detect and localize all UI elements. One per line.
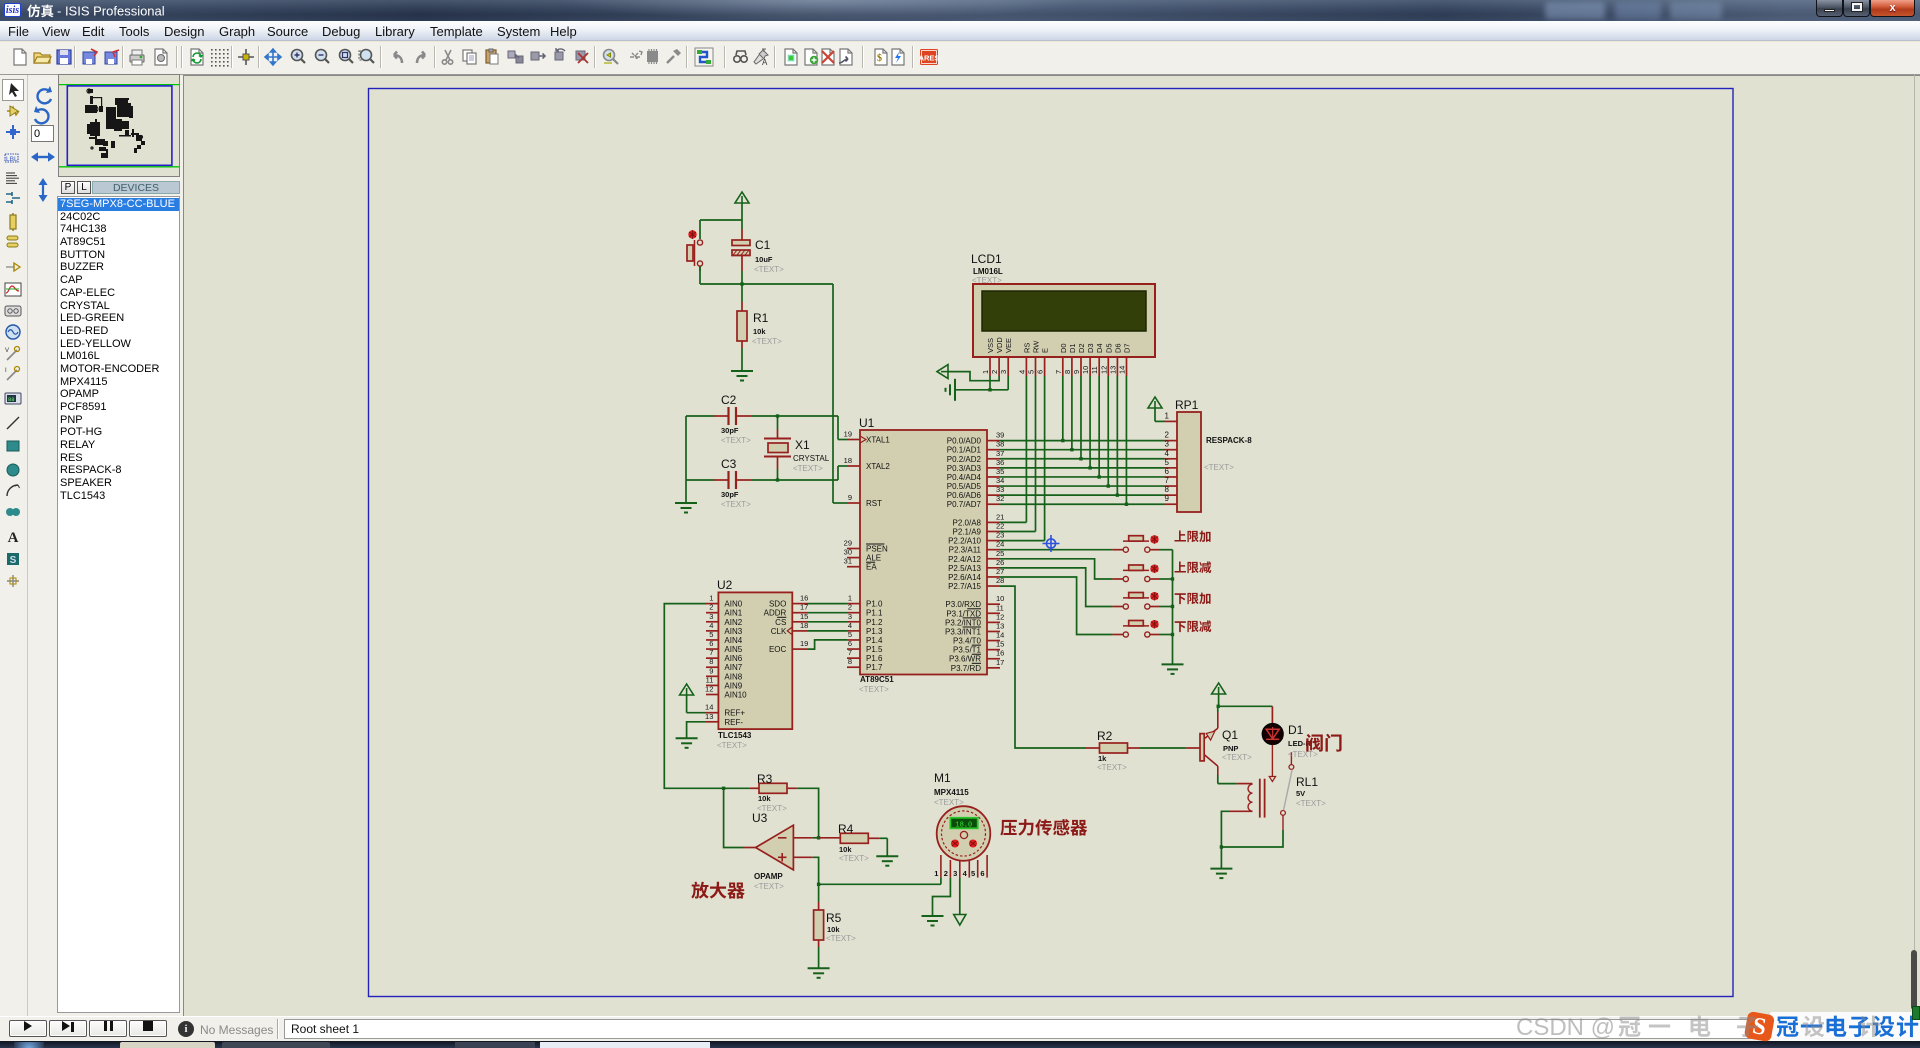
svg-text:<TEXT>: <TEXT> xyxy=(1222,753,1252,762)
svg-text:D0: D0 xyxy=(1059,343,1068,353)
resistor pack RP1 RESPACK-8 xyxy=(1165,411,1202,512)
svg-text:RW: RW xyxy=(1032,340,1041,353)
svg-text:<TEXT>: <TEXT> xyxy=(717,741,747,750)
svg-text:18.0: 18.0 xyxy=(955,822,972,830)
svg-text:P0.5/AD5: P0.5/AD5 xyxy=(947,482,982,491)
svg-text:8: 8 xyxy=(1165,485,1170,494)
power VCC RP1 xyxy=(1148,397,1162,421)
svg-text:CSDN @: CSDN @ xyxy=(1516,1014,1615,1041)
svg-text:14: 14 xyxy=(705,703,713,712)
svg-text:P1.4: P1.4 xyxy=(866,636,883,645)
svg-text:8: 8 xyxy=(848,657,852,666)
pushbutton key3 xyxy=(1112,592,1159,609)
svg-text:31: 31 xyxy=(844,557,852,566)
svg-text:12: 12 xyxy=(996,612,1004,621)
svg-text:REF-: REF- xyxy=(724,718,743,727)
svg-text:9: 9 xyxy=(709,666,713,675)
svg-text:12: 12 xyxy=(705,685,713,694)
svg-text:16: 16 xyxy=(996,649,1004,658)
svg-text:18: 18 xyxy=(844,456,852,465)
wire M1 pin2 to ground xyxy=(933,878,951,916)
svg-text:15: 15 xyxy=(996,640,1004,649)
pushbutton key4 xyxy=(1112,620,1159,637)
svg-text:13: 13 xyxy=(996,621,1004,630)
svg-text:A: A xyxy=(762,58,768,67)
terminal M1 pin3 output xyxy=(954,878,966,925)
transistor Q1 PNP xyxy=(1186,712,1218,775)
svg-text:<TEXT>: <TEXT> xyxy=(826,934,856,943)
svg-text:19: 19 xyxy=(800,639,808,648)
svg-text:3: 3 xyxy=(709,612,713,621)
svg-text:D3: D3 xyxy=(1086,343,1095,353)
svg-text:R5: R5 xyxy=(826,911,842,925)
svg-text:CLK: CLK xyxy=(771,627,787,636)
pressure sensor M1 MPX4115 xyxy=(934,806,990,878)
wire C2 to XTAL1 xyxy=(751,414,847,439)
svg-text:SDO: SDO xyxy=(769,600,786,609)
scrollbar nub xyxy=(1911,950,1917,1010)
ground M1 xyxy=(922,916,944,926)
svg-text:17: 17 xyxy=(996,658,1004,667)
wire amplifier output xyxy=(724,788,743,847)
label key4 xiaxianjian xyxy=(1175,620,1212,632)
svg-text:6: 6 xyxy=(980,869,984,878)
svg-text:10k: 10k xyxy=(839,845,852,854)
ground keys xyxy=(1162,664,1184,674)
wire R4 to ground xyxy=(879,838,887,856)
svg-text:17: 17 xyxy=(800,603,808,612)
svg-text:P3.5/T1: P3.5/T1 xyxy=(953,646,982,655)
svg-text:LCD1: LCD1 xyxy=(971,252,1002,266)
svg-text:R1: R1 xyxy=(753,311,769,325)
microcontroller U1 AT89C51 xyxy=(844,430,1005,675)
svg-text:RS: RS xyxy=(1022,343,1031,353)
svg-text:P3.0/RXD: P3.0/RXD xyxy=(945,600,981,609)
label Q1 xyxy=(1222,728,1252,762)
svg-text:TLC1543: TLC1543 xyxy=(718,731,752,740)
wire P2.3 to key1 xyxy=(1000,549,1112,551)
wire reset bottom rail xyxy=(700,282,833,285)
svg-text:P0.4/AD4: P0.4/AD4 xyxy=(947,473,982,482)
crystal X1 xyxy=(764,416,791,480)
svg-text:AIN5: AIN5 xyxy=(724,645,742,654)
svg-text:AIN10: AIN10 xyxy=(724,691,747,700)
svg-text:6: 6 xyxy=(1036,370,1045,374)
svg-text:P1.1: P1.1 xyxy=(866,609,883,618)
svg-text:PNP: PNP xyxy=(1223,744,1238,753)
label C3 xyxy=(721,457,751,509)
svg-text:P3.2/INT0: P3.2/INT0 xyxy=(945,618,982,627)
svg-text:4: 4 xyxy=(848,621,852,630)
svg-text:6: 6 xyxy=(1165,467,1170,476)
svg-text:RL1: RL1 xyxy=(1296,775,1318,789)
svg-text:9: 9 xyxy=(1165,494,1170,503)
svg-text:2: 2 xyxy=(944,869,948,878)
label key1 shangxianjia xyxy=(1175,531,1211,543)
svg-text:P3.7/RD: P3.7/RD xyxy=(951,664,981,673)
svg-text:U3: U3 xyxy=(752,811,768,825)
svg-text:<TEXT>: <TEXT> xyxy=(1204,463,1234,472)
svg-text:16: 16 xyxy=(800,594,808,603)
wire ADDR to P1.1 xyxy=(808,612,847,614)
svg-text:P3.3/INT1: P3.3/INT1 xyxy=(945,627,982,636)
wire P2.2 to E xyxy=(1000,540,1045,542)
svg-text:88: 88 xyxy=(8,396,15,403)
svg-text:R3: R3 xyxy=(757,772,773,786)
LED D1 xyxy=(1262,706,1283,781)
svg-text:I: I xyxy=(5,368,7,374)
svg-text:<TEXT>: <TEXT> xyxy=(1288,750,1318,759)
wire LCD RW column xyxy=(1035,376,1037,532)
svg-text:<TEXT>: <TEXT> xyxy=(754,882,784,891)
PL devices header xyxy=(61,181,75,194)
svg-text:D6: D6 xyxy=(1113,343,1122,353)
svg-text:P3.4/T0: P3.4/T0 xyxy=(953,637,982,646)
svg-text:3: 3 xyxy=(999,370,1008,374)
svg-text:7: 7 xyxy=(848,648,852,657)
svg-text:AIN4: AIN4 xyxy=(724,636,742,645)
svg-text:D2: D2 xyxy=(1077,343,1086,353)
svg-text:VSS: VSS xyxy=(986,338,995,353)
wire button left leg xyxy=(699,220,701,239)
svg-text:10uF: 10uF xyxy=(755,255,773,264)
svg-text:12: 12 xyxy=(1099,366,1108,374)
svg-text:<TEXT>: <TEXT> xyxy=(934,798,964,807)
wire R3 to inverting node xyxy=(797,788,819,838)
pushbutton reset xyxy=(687,230,703,271)
wire collector to coil xyxy=(1218,775,1237,784)
svg-text:U2: U2 xyxy=(717,578,733,592)
label TLC1543 xyxy=(717,731,752,750)
LCD LCD1 LM016L xyxy=(973,284,1155,376)
svg-text:D7: D7 xyxy=(1123,343,1132,353)
wires LCD D0-D7 columns xyxy=(1061,376,1128,506)
svg-text:<TEXT>: <TEXT> xyxy=(972,276,1002,285)
svg-text:P0.6/AD6: P0.6/AD6 xyxy=(947,491,982,500)
resistor R4 xyxy=(819,833,880,843)
svg-text:5: 5 xyxy=(1165,458,1170,467)
wire relay bottom xyxy=(1220,811,1283,848)
label AT89C51 xyxy=(859,675,894,694)
svg-text:3: 3 xyxy=(1165,440,1170,449)
svg-text:19: 19 xyxy=(844,430,852,439)
wire xtal left rail xyxy=(686,416,714,503)
svg-text:AIN9: AIN9 xyxy=(724,681,742,690)
svg-text:2: 2 xyxy=(1165,431,1170,440)
svg-text:1: 1 xyxy=(709,594,713,603)
wire P2.4 to key2 xyxy=(1000,559,1112,579)
label U3 xyxy=(752,811,784,891)
svg-text:<TEXT>: <TEXT> xyxy=(754,265,784,274)
wire P2.1 to RW xyxy=(1000,531,1036,533)
svg-text:P0.0/AD0: P0.0/AD0 xyxy=(947,437,982,446)
wire REF- to ground xyxy=(687,722,706,739)
label X1 xyxy=(793,438,830,473)
wire reset to RST xyxy=(833,284,847,503)
svg-text:P2.2/A10: P2.2/A10 xyxy=(948,537,981,546)
label LCD1 xyxy=(971,252,1003,285)
wire emitter rail xyxy=(1217,705,1273,712)
minimap xyxy=(58,74,180,177)
svg-text:3: 3 xyxy=(953,869,957,878)
svg-text:ALE: ALE xyxy=(866,554,881,563)
svg-text:P0.1/AD1: P0.1/AD1 xyxy=(947,446,982,455)
svg-text:P2.7/A15: P2.7/A15 xyxy=(948,582,981,591)
label RL1 xyxy=(1296,775,1326,808)
power VCC Q1 xyxy=(1212,683,1226,706)
wire VDD to power xyxy=(948,372,999,381)
svg-text:8: 8 xyxy=(709,657,713,666)
svg-text:30pF: 30pF xyxy=(721,426,739,435)
device list xyxy=(57,196,180,1013)
svg-text:OPAMP: OPAMP xyxy=(754,872,783,881)
svg-text:$: $ xyxy=(877,53,882,64)
svg-text:C2: C2 xyxy=(721,393,737,407)
label D1 xyxy=(1288,723,1318,759)
svg-text:P1.5: P1.5 xyxy=(866,645,883,654)
wire R2 to base xyxy=(1140,747,1186,749)
svg-text:10: 10 xyxy=(1081,366,1090,374)
label fangdaqi xyxy=(691,882,744,899)
resistor R5 xyxy=(814,884,824,968)
svg-text:5V: 5V xyxy=(1296,789,1305,798)
ground relay xyxy=(1210,869,1232,879)
svg-text:1: 1 xyxy=(1165,411,1170,420)
svg-text:5: 5 xyxy=(1027,370,1036,374)
ground R5 xyxy=(808,968,830,978)
sheet border xyxy=(369,89,1734,997)
ground R4 xyxy=(876,856,898,866)
label C2 xyxy=(721,393,751,445)
svg-text:4: 4 xyxy=(709,621,713,630)
label R4 xyxy=(838,822,869,863)
svg-text:11: 11 xyxy=(996,603,1004,612)
svg-text:5: 5 xyxy=(709,630,713,639)
resistor R3 xyxy=(750,783,797,793)
svg-text:P0.3/AD3: P0.3/AD3 xyxy=(947,464,982,473)
svg-text:7: 7 xyxy=(1165,476,1170,485)
svg-text:29: 29 xyxy=(844,539,852,548)
power VCC reset xyxy=(735,192,749,220)
svg-text:2: 2 xyxy=(709,603,713,612)
pushbutton key1 xyxy=(1112,535,1159,552)
svg-text:V: V xyxy=(5,348,9,354)
label R1 xyxy=(752,311,782,346)
wire P2.7 to R2 xyxy=(1000,586,1086,748)
ground reset xyxy=(731,371,753,381)
svg-text:1: 1 xyxy=(981,370,990,374)
svg-text:EOC: EOC xyxy=(769,645,787,654)
svg-text:EA: EA xyxy=(866,563,877,572)
svg-text:10k: 10k xyxy=(827,925,840,934)
svg-text:P3.1/TXD: P3.1/TXD xyxy=(946,609,981,618)
svg-text:RP1: RP1 xyxy=(1175,398,1199,412)
svg-text:P2.6/A14: P2.6/A14 xyxy=(948,573,981,582)
svg-text:<TEXT>: <TEXT> xyxy=(839,854,869,863)
svg-text:U1: U1 xyxy=(859,416,875,430)
svg-text:AIN3: AIN3 xyxy=(724,627,742,636)
svg-text:<TEXT>: <TEXT> xyxy=(721,500,751,509)
svg-text:R4: R4 xyxy=(838,822,854,836)
cursor crosshair xyxy=(1043,535,1060,552)
wire CLK to P1.3 xyxy=(808,630,847,632)
svg-text:VEE: VEE xyxy=(1004,338,1013,353)
wire P2.6 to key4 xyxy=(1000,577,1112,635)
wire noninverting node xyxy=(813,857,819,884)
svg-text:P0.7/AD7: P0.7/AD7 xyxy=(947,500,982,509)
svg-text:<TEXT>: <TEXT> xyxy=(859,685,889,694)
svg-text:15: 15 xyxy=(800,612,808,621)
label R2 xyxy=(1097,729,1127,772)
svg-text:ARES: ARES xyxy=(919,54,939,63)
rotate controls xyxy=(30,84,58,209)
wire SDO to P1.0 xyxy=(808,603,847,605)
svg-text:P0.2/AD2: P0.2/AD2 xyxy=(947,455,982,464)
svg-text:CRYSTAL: CRYSTAL xyxy=(793,454,830,463)
ADC U2 TLC1543 xyxy=(705,592,808,729)
taskbar window buttons peeking xyxy=(120,1042,215,1048)
svg-text:E: E xyxy=(1041,348,1050,353)
label RP1 xyxy=(1175,398,1252,472)
label yali chuanganqi xyxy=(1000,819,1087,836)
pushbutton key2 xyxy=(1112,565,1159,582)
ground LCD xyxy=(946,379,956,401)
resistor R1 xyxy=(737,284,747,370)
wire AIN0 to amplifier xyxy=(664,604,750,790)
svg-text:MPX4115: MPX4115 xyxy=(934,788,969,797)
svg-text:A: A xyxy=(8,530,19,546)
svg-text:ADDR: ADDR xyxy=(764,609,787,618)
svg-text:2: 2 xyxy=(848,603,852,612)
wire P2.0 to RS xyxy=(1000,521,1026,523)
svg-text:<TEXT>: <TEXT> xyxy=(721,436,751,445)
svg-text:<TEXT>: <TEXT> xyxy=(1296,799,1326,808)
wire C3 to XTAL2 xyxy=(751,466,847,482)
svg-text:13: 13 xyxy=(705,712,713,721)
svg-text:Q1: Q1 xyxy=(1222,728,1238,742)
relay RL1 xyxy=(1229,752,1294,830)
svg-text:AIN6: AIN6 xyxy=(724,654,742,663)
svg-text:XTAL2: XTAL2 xyxy=(866,462,890,471)
svg-text:- ISIS Professional: - ISIS Professional xyxy=(57,4,165,19)
label R5 xyxy=(826,911,856,943)
wire RP1 pin1 xyxy=(1155,420,1165,422)
wire CS to P1.2 xyxy=(808,621,847,623)
wire inverting node xyxy=(813,836,821,839)
svg-text:1: 1 xyxy=(934,869,938,878)
wire VSS VEE to ground xyxy=(955,376,1008,392)
svg-text:P2.5/A13: P2.5/A13 xyxy=(948,564,981,573)
wire reset top rail xyxy=(700,219,742,221)
svg-text:RESPACK-8: RESPACK-8 xyxy=(1206,436,1252,445)
svg-text:AIN2: AIN2 xyxy=(724,618,742,627)
label M1 xyxy=(934,771,969,807)
svg-text:30pF: 30pF xyxy=(721,490,739,499)
svg-text:2: 2 xyxy=(990,370,999,374)
svg-text:3: 3 xyxy=(848,612,852,621)
svg-text:X1: X1 xyxy=(795,438,810,452)
svg-text:18: 18 xyxy=(800,621,808,630)
wire LCD E column xyxy=(1044,376,1046,541)
svg-text:P1.7: P1.7 xyxy=(866,663,883,672)
svg-text:P2.0/A8: P2.0/A8 xyxy=(953,518,982,527)
svg-text:LBL: LBL xyxy=(6,156,18,163)
capacitor C3 xyxy=(714,471,751,489)
svg-text:P1.0: P1.0 xyxy=(866,600,883,609)
svg-text:CS: CS xyxy=(775,618,786,627)
svg-text:PSEN: PSEN xyxy=(866,545,888,554)
svg-text:P1.2: P1.2 xyxy=(866,618,883,627)
svg-text:R2: R2 xyxy=(1097,729,1113,743)
label key2 shangxianjian xyxy=(1175,561,1212,573)
svg-text:7: 7 xyxy=(709,648,713,657)
svg-text:4: 4 xyxy=(963,869,968,878)
svg-text:9: 9 xyxy=(848,493,852,502)
svg-text:21: 21 xyxy=(996,512,1004,521)
label R3 xyxy=(757,772,787,813)
svg-text:14: 14 xyxy=(996,631,1004,640)
resistor R2 xyxy=(1086,743,1140,753)
svg-text:<TEXT>: <TEXT> xyxy=(752,337,782,346)
svg-text:7: 7 xyxy=(1054,370,1063,374)
svg-text:AT89C51: AT89C51 xyxy=(860,675,894,684)
svg-text:S: S xyxy=(10,555,17,566)
label key3 xiaxianjia xyxy=(1175,593,1211,605)
svg-text:<TEXT>: <TEXT> xyxy=(1097,763,1127,772)
svg-text:30: 30 xyxy=(844,548,852,557)
svg-text:D1: D1 xyxy=(1068,343,1077,353)
wire key bus xyxy=(1160,550,1175,664)
svg-text:P1.6: P1.6 xyxy=(866,654,883,663)
svg-text:XTAL1: XTAL1 xyxy=(866,436,890,445)
wire sensor to amplifier xyxy=(817,878,941,886)
svg-text:10: 10 xyxy=(996,594,1004,603)
wire EOC to P1.4 xyxy=(808,640,847,649)
label U2 xyxy=(717,578,733,592)
svg-text:6: 6 xyxy=(709,639,713,648)
svg-text:C1: C1 xyxy=(755,238,771,252)
label U1 xyxy=(859,416,875,430)
svg-text:RST: RST xyxy=(866,499,882,508)
svg-text:14: 14 xyxy=(1118,366,1127,374)
svg-text:P2.4/A12: P2.4/A12 xyxy=(948,555,981,564)
svg-text:P3.6/WR: P3.6/WR xyxy=(949,655,981,664)
power VCC REF+ xyxy=(680,684,706,713)
svg-text:D4: D4 xyxy=(1095,343,1104,353)
power VDD terminal xyxy=(937,365,948,379)
svg-text:<TEXT>: <TEXT> xyxy=(793,464,823,473)
svg-text:LM016L: LM016L xyxy=(973,267,1003,276)
svg-text:AIN7: AIN7 xyxy=(724,663,742,672)
svg-text:VDD: VDD xyxy=(995,337,1004,353)
svg-text:AIN0: AIN0 xyxy=(724,600,742,609)
svg-text:AIN8: AIN8 xyxy=(724,672,742,681)
svg-text:13: 13 xyxy=(1108,366,1117,374)
wires P0.0-P0.7 bus rows xyxy=(1000,441,1165,505)
svg-text:9: 9 xyxy=(1072,370,1081,374)
capacitor C2 xyxy=(714,407,751,425)
svg-text:AIN1: AIN1 xyxy=(724,609,742,618)
svg-text:10k: 10k xyxy=(753,327,766,336)
svg-text:1: 1 xyxy=(848,594,852,603)
svg-text:5: 5 xyxy=(971,869,975,878)
label C1 xyxy=(754,238,784,274)
svg-text:4: 4 xyxy=(1165,449,1170,458)
svg-text:8: 8 xyxy=(1063,370,1072,374)
wire button bottom leg xyxy=(699,266,701,284)
svg-text:11: 11 xyxy=(1090,366,1099,374)
svg-text:C3: C3 xyxy=(721,457,737,471)
